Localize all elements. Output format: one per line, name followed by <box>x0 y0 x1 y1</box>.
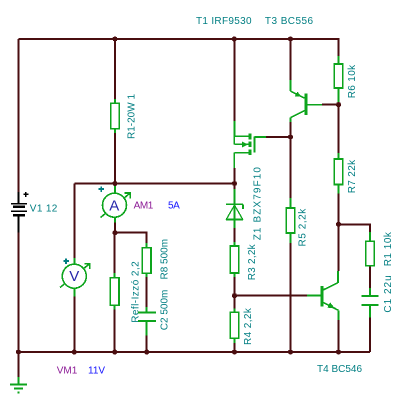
wire R4 bottom <box>234 343 236 352</box>
wire T1 source <box>233 39 235 121</box>
svg-text:T3 BC556: T3 BC556 <box>265 16 314 27</box>
junction mid rail zener <box>232 181 237 186</box>
transistor T4 <box>322 283 339 311</box>
wire green lamp pins <box>114 273 116 278</box>
wire green T1 source pin <box>233 121 235 136</box>
wire node to R5 <box>290 137 292 198</box>
wire green R4 pins <box>234 309 236 313</box>
svg-text:R1-20W 1: R1-20W 1 <box>127 94 138 139</box>
wire green R7 pins <box>338 153 340 159</box>
wire node to R1b branch <box>339 224 371 232</box>
wire top rail <box>19 39 339 56</box>
junction bottom C2 <box>144 349 149 354</box>
wire T3 base to node <box>322 104 339 106</box>
svg-text:R8 500m: R8 500m <box>160 239 171 280</box>
svg-text:T4 BC546: T4 BC546 <box>317 364 362 375</box>
wire battery bottom lead <box>18 233 20 352</box>
wire green R1 top pin <box>114 99 116 103</box>
wire green T4 collector pin <box>337 271 339 283</box>
resistor R4 <box>230 312 239 338</box>
wire green R3 pins <box>234 242 236 246</box>
svg-text:Z1 BZX79F10: Z1 BZX79F10 <box>252 166 263 240</box>
resistor R5 <box>286 208 295 233</box>
wire green AM1 top pin <box>114 184 116 194</box>
svg-text:R1 10k: R1 10k <box>383 231 394 266</box>
wire VM1 top <box>73 184 75 259</box>
wire node to R8 <box>115 233 147 243</box>
svg-text:V1 12: V1 12 <box>30 203 58 214</box>
wire green R8 pins <box>146 243 148 248</box>
svg-text:C1 22u: C1 22u <box>383 274 394 312</box>
zener Z1 <box>226 204 243 219</box>
junction mid rail R1 <box>112 181 117 186</box>
wire T4 collector top <box>338 224 340 271</box>
resistor R8 <box>142 248 151 274</box>
resistor R1b 10k <box>366 241 375 266</box>
wire AM1 bottom <box>114 223 116 233</box>
wire green R6 pins <box>338 56 340 64</box>
wire node to T4 base <box>235 295 308 297</box>
wire green R1b pins <box>369 232 371 241</box>
wire green C2 pins <box>146 307 148 311</box>
svg-text:A: A <box>109 197 119 214</box>
wire bottom rail <box>19 351 371 353</box>
wire T4 emitter bottom <box>338 320 340 352</box>
junction bottom battery <box>16 349 21 354</box>
mosfet T1 <box>234 134 254 169</box>
resistor R1-20W <box>111 103 120 128</box>
wire mid rail <box>74 183 234 185</box>
junction bottom T4 <box>336 349 341 354</box>
svg-text:C2 500m: C2 500m <box>160 290 171 331</box>
wire green T4 base pin <box>307 295 320 297</box>
wire VM1 bottom <box>73 296 75 352</box>
wire green T1 gate pin <box>255 136 267 138</box>
junction bottom VM1 <box>72 349 77 354</box>
voltmeter VM1 <box>60 258 90 288</box>
wire green T3 emitter pin <box>290 80 292 91</box>
junction R7 T4 collector <box>336 222 341 227</box>
svg-text:V: V <box>69 268 79 285</box>
wire green VM1 bottom pin <box>73 288 75 296</box>
svg-text:R3 2,2k: R3 2,2k <box>247 243 258 280</box>
svg-text:R6 10k: R6 10k <box>347 64 358 98</box>
ground <box>10 377 27 393</box>
resistor R6 <box>334 64 343 88</box>
wire T1 gate to node <box>266 136 291 138</box>
junction bottom R5 <box>288 349 293 354</box>
svg-text:AM1: AM1 <box>134 201 154 212</box>
svg-text:5A: 5A <box>168 201 180 212</box>
svg-text:R7 22k: R7 22k <box>347 159 358 193</box>
wire R1 branch top <box>114 39 116 99</box>
wire green R5 pins <box>290 198 292 208</box>
wire R1b to C1 <box>369 266 371 288</box>
junction top rail T3 <box>288 36 293 41</box>
capacitor C1 <box>362 296 379 305</box>
wire green R1 bottom pin <box>114 129 116 133</box>
junction AM1 lamp <box>112 230 117 235</box>
wire T3 emitter top <box>290 39 292 80</box>
wire zener to R3 <box>234 228 236 242</box>
wire lamp top <box>114 233 116 273</box>
svg-text:11V: 11V <box>88 365 105 376</box>
wire green AM1 bottom pin <box>114 217 116 223</box>
svg-text:T1 IRF9530: T1 IRF9530 <box>196 16 252 27</box>
wire green zener pins <box>234 189 236 204</box>
junction bottom lamp <box>112 349 117 354</box>
junction gate node <box>288 134 293 139</box>
wire R1 bottom to node <box>114 133 116 184</box>
wire R8 to C2 <box>146 273 148 307</box>
wire R3 bottom <box>234 277 236 296</box>
resistor R3 <box>230 246 239 273</box>
svg-text:Refl-Izzó 2,2: Refl-Izzó 2,2 <box>130 261 141 323</box>
junction top rail T1 <box>232 36 237 41</box>
svg-text:R4 2,2k: R4 2,2k <box>243 307 254 345</box>
wire T1 drain <box>233 168 235 184</box>
wire green VM1 top pin <box>73 258 75 264</box>
lamp Refl-Izzo <box>110 278 119 305</box>
wire node to zener <box>234 184 236 190</box>
transistor T3 <box>291 91 323 117</box>
junction bottom R4 <box>232 349 237 354</box>
wire green T4 emitter pin <box>338 310 340 320</box>
junction T3 base R6 <box>336 102 341 107</box>
ammeter AM1 <box>99 186 131 217</box>
wire R5 bottom <box>290 243 292 352</box>
wire C2 bottom <box>146 335 148 352</box>
wire green C1 bottom pin <box>369 306 371 317</box>
wire T3 collector to node <box>290 122 292 137</box>
capacitor C2 <box>138 312 156 321</box>
wire R6 bottom node to R7 <box>338 105 340 153</box>
resistor R7 <box>334 159 343 185</box>
wire R7 bottom to node <box>338 194 340 225</box>
wire ground stem <box>18 352 20 377</box>
battery V1 <box>11 192 28 233</box>
wire battery top lead <box>18 39 20 192</box>
svg-text:R5 2,2k: R5 2,2k <box>298 208 309 247</box>
junction top rail R1 <box>112 36 117 41</box>
svg-text:VM1: VM1 <box>57 365 78 376</box>
wire R4 top <box>234 296 236 309</box>
junction R3 R4 T4 base <box>232 293 237 298</box>
wire C1 bottom <box>369 317 371 352</box>
wire green T3 collector pin <box>290 118 292 122</box>
wire lamp bottom <box>114 310 116 353</box>
